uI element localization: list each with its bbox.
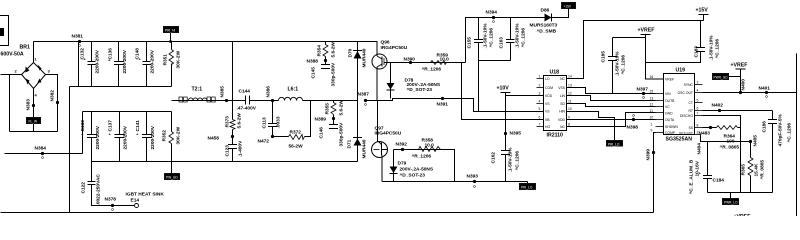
svg-text:NC: NC bbox=[560, 125, 565, 129]
svg-text:5.6-2W: 5.6-2W bbox=[339, 100, 345, 116]
svg-text:6: 6 bbox=[539, 116, 541, 120]
svg-text:2: 2 bbox=[539, 84, 541, 88]
svg-text:NC: NC bbox=[560, 77, 565, 81]
wire LIN feed bbox=[462, 63, 544, 120]
svg-text:^C_1206: ^C_1206 bbox=[787, 123, 793, 143]
net tag PWR_LO bottom bbox=[723, 193, 739, 205]
wire VCC to +15V rail bbox=[567, 21, 704, 79]
svg-text:N386: N386 bbox=[266, 86, 272, 98]
svg-text:VC: VC bbox=[665, 105, 670, 109]
svg-text:N392: N392 bbox=[396, 142, 408, 148]
diode D79 bbox=[390, 150, 434, 182]
wire bridge right to N382 bbox=[46, 75, 58, 132]
net tag PRI_HI top bbox=[164, 27, 179, 43]
wire bank1 bottom rail bbox=[70, 86, 172, 88]
svg-text:3: 3 bbox=[697, 81, 699, 85]
svg-text:^R_1206: ^R_1206 bbox=[422, 67, 442, 73]
svg-text:10.0: 10.0 bbox=[440, 57, 450, 63]
svg-text:.1-50V-10%: .1-50V-10% bbox=[615, 51, 621, 77]
wire bank2 left riser bbox=[82, 112, 84, 154]
svg-text:PRI_LO: PRI_LO bbox=[608, 143, 620, 147]
svg-text:D71: D71 bbox=[347, 139, 353, 148]
node N381 bbox=[72, 34, 84, 47]
svg-text:N401: N401 bbox=[759, 86, 771, 92]
connector J box top-left bbox=[0, 16, 9, 46]
svg-text:PWR_LO: PWR_LO bbox=[724, 201, 738, 205]
wire U18 HO to U19 weave bbox=[567, 88, 656, 94]
wire LIN to U19 bbox=[567, 119, 656, 121]
capacitor C136 bbox=[108, 42, 129, 87]
capacitor C186 bbox=[762, 111, 793, 193]
capacitor C162 with node N395 bbox=[491, 131, 522, 182]
wire return y131 bbox=[10, 131, 58, 133]
capacitor C163 bbox=[499, 18, 527, 61]
resistor R359 bbox=[422, 53, 450, 73]
wire N381 drop bbox=[78, 42, 80, 87]
resistor R352 bbox=[162, 112, 182, 162]
svg-text:.1-50V-10%: .1-50V-10% bbox=[709, 35, 715, 61]
svg-text:N397: N397 bbox=[637, 87, 649, 93]
diode D71 MUR440 bbox=[347, 101, 368, 162]
wire analog ground rail bbox=[708, 192, 773, 194]
capacitor C146 bbox=[319, 119, 345, 147]
wire N401 row bbox=[703, 92, 797, 94]
svg-text:R354: R354 bbox=[317, 45, 323, 57]
capacitor C144 bbox=[227, 89, 273, 112]
node N383 bbox=[26, 99, 36, 111]
wire left return drop bbox=[69, 87, 71, 213]
svg-text:IRG4PC50U: IRG4PC50U bbox=[381, 45, 408, 51]
svg-text:4: 4 bbox=[539, 100, 541, 104]
svg-text:10: 10 bbox=[568, 107, 572, 111]
svg-text:LIN: LIN bbox=[560, 94, 566, 98]
wire midpoint to VS bbox=[366, 99, 544, 112]
svg-text:7: 7 bbox=[539, 123, 541, 127]
svg-text:2200-200V: 2200-200V bbox=[95, 49, 101, 73]
net tag PRI_LO lower bbox=[520, 182, 536, 190]
svg-text:COMP: COMP bbox=[665, 131, 676, 135]
svg-text:IRG4PC50U: IRG4PC50U bbox=[375, 131, 402, 137]
svg-text:RT: RT bbox=[689, 109, 693, 113]
wire gate Q96 bbox=[394, 62, 466, 64]
svg-text:N387: N387 bbox=[358, 92, 370, 98]
svg-text:330p-500V: 330p-500V bbox=[331, 62, 337, 87]
svg-text:.1-50V-10%: .1-50V-10% bbox=[508, 147, 514, 173]
svg-text:VDD: VDD bbox=[545, 94, 553, 98]
svg-text:N393: N393 bbox=[467, 174, 479, 180]
svg-text:HO: HO bbox=[545, 125, 550, 129]
svg-text:+VREF: +VREF bbox=[731, 63, 748, 69]
net tag PRI_LO mid bbox=[567, 112, 623, 147]
svg-text:2200-200V: 2200-200V bbox=[123, 125, 129, 149]
power flag +15V bbox=[696, 8, 709, 21]
svg-text:U18: U18 bbox=[550, 70, 560, 76]
svg-text:D79: D79 bbox=[398, 161, 407, 167]
svg-text:C133: C133 bbox=[80, 120, 86, 132]
svg-text:N388: N388 bbox=[307, 59, 319, 65]
svg-text:5: 5 bbox=[539, 107, 541, 111]
svg-text:BR1: BR1 bbox=[20, 45, 30, 51]
svg-text:N383: N383 bbox=[26, 99, 32, 111]
svg-text:N398: N398 bbox=[627, 125, 639, 131]
resistor R351 bbox=[163, 42, 182, 87]
svg-text:E14: E14 bbox=[131, 198, 140, 204]
svg-text:+10V: +10V bbox=[497, 86, 510, 92]
svg-text:^C_1206: ^C_1206 bbox=[621, 55, 627, 75]
resistor R365 with node N405 bbox=[741, 135, 766, 193]
earth stud E14 bbox=[126, 192, 165, 208]
power flag +10V bbox=[497, 86, 544, 134]
svg-text:C113: C113 bbox=[262, 117, 268, 129]
svg-text:VSS: VSS bbox=[558, 86, 566, 90]
svg-text:SD: SD bbox=[560, 102, 565, 106]
node N472 bbox=[258, 135, 275, 145]
svg-text:600V-50A: 600V-50A bbox=[1, 52, 24, 58]
svg-text:15.4K: 15.4K bbox=[754, 163, 760, 176]
capacitor C133 bbox=[80, 112, 101, 162]
svg-text:N395: N395 bbox=[510, 131, 522, 137]
resistor R372 bbox=[273, 101, 311, 150]
svg-text:1: 1 bbox=[539, 75, 541, 79]
svg-text:30K-2W: 30K-2W bbox=[176, 50, 182, 68]
svg-text:12: 12 bbox=[650, 103, 654, 107]
svg-text:16: 16 bbox=[650, 75, 654, 79]
node N390 bbox=[404, 57, 416, 65]
svg-text:C148: C148 bbox=[135, 48, 141, 60]
svg-text:SYNC: SYNC bbox=[684, 83, 694, 87]
svg-text:OUTA: OUTA bbox=[665, 118, 675, 122]
svg-text:N381: N381 bbox=[72, 34, 84, 40]
svg-text:470pF-50V-5%: 470pF-50V-5% bbox=[778, 114, 784, 147]
svg-text:Q96: Q96 bbox=[381, 40, 390, 46]
svg-text:5.6-2W: 5.6-2W bbox=[237, 113, 243, 129]
svg-text:N399: N399 bbox=[646, 149, 652, 161]
capacitor C137 bbox=[108, 112, 129, 162]
capacitor C113 bbox=[262, 101, 282, 137]
svg-text:56-2W: 56-2W bbox=[289, 144, 304, 150]
svg-text:330p-500V: 330p-500V bbox=[339, 122, 345, 147]
svg-text:^D_SMB: ^D_SMB bbox=[537, 29, 557, 35]
wire bootstrap return bbox=[479, 60, 511, 62]
net tag FL1 bbox=[27, 118, 41, 132]
svg-text:5: 5 bbox=[697, 99, 699, 103]
node N458 bbox=[208, 135, 235, 142]
resistor R358 bbox=[412, 138, 441, 160]
svg-text:PWR_GD: PWR_GD bbox=[714, 76, 729, 80]
svg-text:^C_1206: ^C_1206 bbox=[515, 151, 521, 171]
svg-text:L6:1: L6:1 bbox=[288, 87, 299, 93]
svg-text:D86: D86 bbox=[541, 8, 550, 14]
svg-text:N402: N402 bbox=[712, 103, 724, 109]
diode D86 MURS160T3 bbox=[530, 8, 569, 35]
capacitor C145 bbox=[311, 61, 337, 87]
svg-text:.47-400V: .47-400V bbox=[237, 106, 257, 112]
capacitor C183 bbox=[646, 21, 721, 63]
svg-text:C137: C137 bbox=[108, 120, 114, 132]
svg-text:SHDWN: SHDWN bbox=[665, 125, 678, 129]
resistor R364 bbox=[699, 116, 741, 193]
svg-text:VS: VS bbox=[545, 110, 550, 114]
svg-text:T2:1: T2:1 bbox=[192, 87, 203, 93]
svg-text:DISCHG: DISCHG bbox=[680, 114, 694, 118]
svg-text:C123: C123 bbox=[225, 145, 231, 157]
svg-text:.1-50V-10%: .1-50V-10% bbox=[483, 23, 489, 49]
node N401 bbox=[759, 86, 771, 98]
svg-text:2200-200V: 2200-200V bbox=[95, 125, 101, 149]
svg-text:OUTB: OUTB bbox=[665, 99, 675, 103]
svg-text:CT: CT bbox=[688, 101, 693, 105]
svg-text:C146: C146 bbox=[319, 127, 325, 139]
svg-text:^R_0805: ^R_0805 bbox=[760, 160, 766, 180]
svg-text:^C_E_ALUM_B: ^C_E_ALUM_B bbox=[689, 159, 695, 194]
node N397 bbox=[637, 87, 649, 99]
wire bridge top to bus bbox=[33, 42, 35, 63]
svg-text:VREF: VREF bbox=[665, 78, 674, 82]
svg-text:^D_SOT-23: ^D_SOT-23 bbox=[400, 173, 426, 179]
svg-text:15: 15 bbox=[650, 90, 654, 94]
node N393 bbox=[467, 174, 479, 188]
svg-text:10.0: 10.0 bbox=[425, 143, 435, 149]
svg-text:R365: R365 bbox=[741, 164, 747, 176]
wire right edge bbox=[796, 54, 798, 217]
svg-text:N389: N389 bbox=[315, 117, 327, 123]
svg-text:+VREF: +VREF bbox=[638, 28, 655, 34]
svg-text:VDD: VDD bbox=[558, 118, 566, 122]
node N389 bbox=[315, 117, 336, 123]
svg-text:8: 8 bbox=[697, 124, 699, 128]
node N399 ground drop bbox=[646, 133, 656, 213]
svg-text:R352: R352 bbox=[162, 130, 168, 142]
svg-text:C186: C186 bbox=[762, 121, 768, 133]
svg-text:10: 10 bbox=[650, 116, 654, 120]
node N394 bbox=[486, 10, 498, 23]
wire bridge bottom N383 bbox=[33, 89, 35, 118]
inductor T2:1 current transformer bbox=[172, 87, 227, 103]
IC U19 SG3525AN bbox=[650, 68, 703, 143]
node N387 bbox=[358, 92, 370, 106]
svg-text:9: 9 bbox=[568, 116, 570, 120]
svg-text:PW_GD: PW_GD bbox=[166, 176, 178, 180]
svg-text:N405: N405 bbox=[753, 135, 759, 147]
svg-text:C144: C144 bbox=[239, 89, 251, 95]
resistor R355 bbox=[325, 100, 345, 119]
svg-text:C132: C132 bbox=[80, 48, 86, 60]
IGBT Q96 bbox=[372, 40, 408, 101]
svg-text:+15V: +15V bbox=[696, 8, 709, 14]
svg-text:.0022-250VAC: .0022-250VAC bbox=[96, 174, 102, 206]
capacitor C132 bbox=[80, 42, 101, 87]
svg-text:^R_0805: ^R_0805 bbox=[720, 145, 740, 151]
svg-text:.1-50V-10%: .1-50V-10% bbox=[515, 23, 521, 49]
IGBT Q97 bbox=[372, 101, 402, 182]
svg-text:^C_1206: ^C_1206 bbox=[715, 39, 721, 59]
svg-text:U19: U19 bbox=[676, 68, 686, 74]
svg-text:.0033: .0033 bbox=[276, 116, 282, 128]
capacitor C122 bbox=[81, 162, 135, 206]
node N398 bbox=[627, 115, 639, 131]
svg-text:+VREF: +VREF bbox=[734, 214, 751, 216]
svg-text:1: 1 bbox=[651, 123, 653, 127]
wire emitter bus Q97 bbox=[382, 181, 528, 183]
svg-text:N404: N404 bbox=[697, 143, 703, 155]
node N400 bbox=[739, 79, 747, 94]
wire gate Q97 bbox=[394, 150, 455, 182]
svg-text:C122: C122 bbox=[81, 182, 87, 194]
svg-text:N384: N384 bbox=[35, 146, 47, 152]
bridge rectifier BR1 bbox=[15, 57, 51, 98]
svg-text:C162: C162 bbox=[491, 152, 497, 164]
node N402 bbox=[712, 103, 724, 113]
svg-text:N472: N472 bbox=[258, 139, 270, 145]
svg-text:C136: C136 bbox=[108, 48, 114, 60]
svg-text:^C_1206: ^C_1206 bbox=[521, 28, 527, 48]
svg-text:OSC.OUT: OSC.OUT bbox=[678, 91, 693, 95]
svg-text:FL_W: FL_W bbox=[29, 120, 38, 124]
svg-text:C185: C185 bbox=[601, 51, 607, 63]
svg-text:C183: C183 bbox=[694, 46, 700, 58]
IC U18 IR2110 bbox=[537, 70, 574, 139]
diode D78 bbox=[387, 63, 441, 99]
node N378 bbox=[105, 197, 117, 211]
svg-text:N385: N385 bbox=[220, 86, 226, 98]
svg-text:VS: VS bbox=[545, 102, 550, 106]
svg-text:C184: C184 bbox=[713, 178, 725, 184]
svg-text:+15V: +15V bbox=[564, 5, 572, 9]
svg-text:MURS160T3: MURS160T3 bbox=[530, 23, 558, 29]
svg-text:30K-2W: 30K-2W bbox=[176, 126, 182, 144]
svg-text:N458: N458 bbox=[208, 136, 220, 142]
wire primary return bus bbox=[92, 161, 358, 163]
node N382 bbox=[50, 90, 60, 104]
wire AC input to bridge bbox=[1, 74, 22, 76]
node N391 bbox=[437, 97, 449, 108]
power flag +VREF right bbox=[731, 63, 748, 93]
svg-text:SG3525AN: SG3525AN bbox=[666, 137, 693, 143]
svg-text:7: 7 bbox=[697, 112, 699, 116]
node N385 bbox=[220, 86, 229, 102]
svg-text:2200-200V: 2200-200V bbox=[150, 49, 156, 73]
svg-text:6: 6 bbox=[697, 107, 699, 111]
capacitor C184 bbox=[689, 142, 725, 195]
svg-text:8: 8 bbox=[568, 123, 570, 127]
svg-text:2200-200V: 2200-200V bbox=[150, 125, 156, 149]
power flag +VREF left bbox=[613, 28, 664, 80]
svg-text:MUR440: MUR440 bbox=[362, 48, 368, 67]
svg-text:5.6-2W: 5.6-2W bbox=[331, 42, 337, 58]
svg-text:GND: GND bbox=[665, 112, 673, 116]
svg-text:C155: C155 bbox=[467, 37, 473, 49]
svg-text:9: 9 bbox=[651, 129, 653, 133]
wire N384 line bbox=[5, 153, 83, 155]
svg-text:R372: R372 bbox=[290, 130, 302, 136]
svg-text:PRI_LO: PRI_LO bbox=[521, 186, 533, 190]
diode D70 MUR440 bbox=[348, 42, 368, 101]
node N388 bbox=[307, 59, 328, 65]
node N386 bbox=[266, 86, 275, 102]
svg-text:D70: D70 bbox=[348, 48, 354, 57]
svg-text:COM: COM bbox=[545, 86, 553, 90]
svg-text:3: 3 bbox=[539, 92, 541, 96]
svg-text:N400: N400 bbox=[741, 79, 747, 91]
svg-text:HIN: HIN bbox=[559, 110, 565, 114]
svg-text:R373: R373 bbox=[225, 116, 231, 128]
svg-text:11: 11 bbox=[568, 100, 572, 104]
wire midpoint feed from divider bbox=[172, 100, 227, 102]
svg-text:VB: VB bbox=[545, 118, 550, 122]
wire N484 row bbox=[697, 135, 751, 155]
net tag PWR_GD right bbox=[713, 74, 741, 80]
resistor R373 bbox=[225, 42, 243, 145]
svg-text:14: 14 bbox=[568, 75, 572, 79]
svg-text:^D_SOT-23: ^D_SOT-23 bbox=[407, 87, 433, 93]
svg-text:C163: C163 bbox=[499, 37, 505, 49]
svg-text:C145: C145 bbox=[311, 67, 317, 79]
svg-text:R355: R355 bbox=[325, 103, 331, 115]
svg-text:.1-400V: .1-400V bbox=[238, 140, 244, 158]
capacitor C123 bbox=[225, 140, 244, 162]
inductor L6:1 bbox=[273, 87, 358, 101]
svg-text:2200-200V: 2200-200V bbox=[122, 49, 128, 73]
svg-text:IGBT HEAT SINK: IGBT HEAT SINK bbox=[126, 192, 165, 198]
capacitor C141 bbox=[135, 112, 156, 162]
svg-text:N378: N378 bbox=[105, 197, 117, 203]
svg-text:VIN: VIN bbox=[665, 92, 671, 96]
svg-text:N394: N394 bbox=[486, 10, 498, 16]
svg-text:LO: LO bbox=[545, 77, 550, 81]
capacitor C148 bbox=[135, 42, 156, 87]
net tag PWR_GD lower left bbox=[165, 162, 180, 180]
capacitor C155 bbox=[467, 18, 495, 61]
svg-text:N390: N390 bbox=[404, 57, 416, 63]
svg-text:200V-.2A-50NS: 200V-.2A-50NS bbox=[400, 167, 434, 173]
svg-text:10-16V: 10-16V bbox=[695, 160, 701, 176]
svg-text:SFT-SST: SFT-SST bbox=[679, 132, 693, 136]
svg-text:IR2110: IR2110 bbox=[547, 133, 564, 139]
svg-text:N391: N391 bbox=[437, 102, 449, 108]
wire top bus bbox=[34, 41, 378, 43]
node N384 bbox=[35, 146, 47, 159]
svg-text:PRI_HI: PRI_HI bbox=[165, 29, 175, 33]
svg-text:13: 13 bbox=[568, 84, 572, 88]
svg-text:12: 12 bbox=[568, 92, 572, 96]
capacitor C185 bbox=[601, 38, 627, 94]
svg-text:4: 4 bbox=[697, 89, 699, 93]
wire bank2 top rail bbox=[83, 111, 172, 113]
svg-text:^R_1206: ^R_1206 bbox=[412, 154, 432, 160]
wire left drop bbox=[9, 75, 11, 132]
node N392 bbox=[396, 142, 408, 152]
svg-text:R351: R351 bbox=[163, 54, 169, 66]
net tag +15V top bbox=[562, 3, 576, 9]
bottom earth line bbox=[1, 212, 654, 214]
svg-text:N382: N382 bbox=[50, 90, 56, 102]
svg-text:^C_1206: ^C_1206 bbox=[489, 28, 495, 48]
svg-text:13: 13 bbox=[650, 97, 654, 101]
svg-text:11: 11 bbox=[650, 109, 654, 113]
svg-text:SS: SS bbox=[688, 126, 693, 130]
wire VB rail N394 bbox=[466, 18, 545, 63]
svg-text:MUR440: MUR440 bbox=[362, 139, 368, 158]
wire N402 row bbox=[703, 110, 773, 112]
svg-text:C141: C141 bbox=[135, 120, 141, 132]
resistor R354 bbox=[317, 42, 337, 61]
